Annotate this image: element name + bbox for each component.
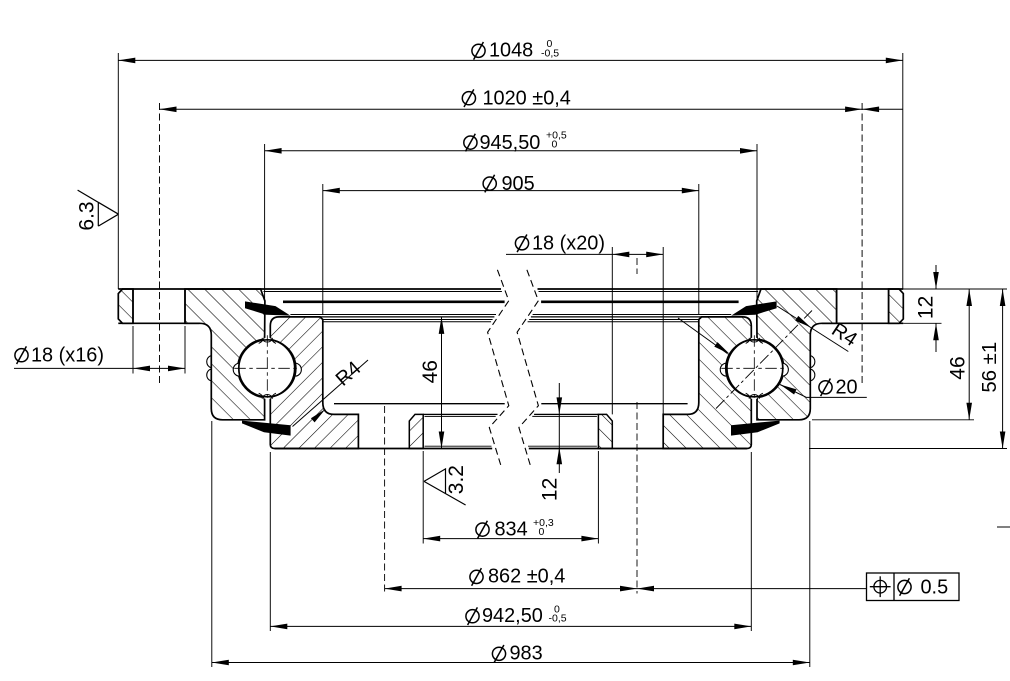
bottom bolt centerline right xyxy=(636,258,638,274)
svg-text:18 (x20): 18 (x20) xyxy=(532,233,605,255)
svg-text:46: 46 xyxy=(946,356,969,379)
svg-text:-0,5: -0,5 xyxy=(549,613,567,625)
svg-text:3.2: 3.2 xyxy=(445,465,468,494)
ball centerlines left xyxy=(234,367,300,369)
feature control frame position Ø0.5 xyxy=(867,573,960,601)
break line right xyxy=(517,270,538,465)
top silhouette line xyxy=(118,288,501,290)
svg-text:942,50: 942,50 xyxy=(482,605,543,627)
axis tick right edge xyxy=(997,526,1010,528)
filler plug, left outer ring xyxy=(207,356,212,382)
dimension 12 right (flange) xyxy=(903,288,1007,290)
leader Ø20 right ball xyxy=(780,385,806,398)
svg-text:862 ±0,4: 862 ±0,4 xyxy=(488,566,565,588)
contact angle diagonal, right ball xyxy=(716,311,812,409)
svg-text:56 ±1: 56 ±1 xyxy=(979,342,1001,393)
outer ring flange tip, right xyxy=(889,289,904,323)
inner ring top projected lines xyxy=(290,314,496,316)
bottom seal, right cut xyxy=(731,421,780,436)
filler plug, right outer ring xyxy=(810,356,815,382)
flange bolt centerline right xyxy=(861,103,863,383)
dimension Ø905 top xyxy=(322,184,324,314)
dimension Ø1020 top xyxy=(160,108,903,110)
break line left xyxy=(488,270,509,465)
outer ring flange tip, left xyxy=(118,289,133,323)
svg-text:12: 12 xyxy=(914,296,937,319)
dimension Ø945,50 top xyxy=(264,144,266,299)
race goblet flares left xyxy=(259,335,265,343)
svg-text:-0,5: -0,5 xyxy=(541,47,559,59)
svg-text:1020 ±0,4: 1020 ±0,4 xyxy=(483,88,571,110)
flange underside left xyxy=(118,322,199,324)
bottom seal, left cut xyxy=(242,421,291,436)
ball centerlines right xyxy=(721,367,787,369)
dimension 46 left (inner ring height) xyxy=(441,317,443,449)
leader R4 left xyxy=(293,360,369,427)
svg-text:0: 0 xyxy=(539,526,545,538)
seal edge thick line xyxy=(283,300,505,303)
svg-text:0: 0 xyxy=(552,139,558,151)
surface finish 3.2 bottom xyxy=(424,469,466,505)
svg-text:0.5: 0.5 xyxy=(921,577,949,599)
recess floor line xyxy=(423,413,497,415)
outer ring section, left cut xyxy=(185,289,265,420)
dimension Ø942,50 bottom xyxy=(269,452,271,631)
inner ring section, right cut xyxy=(663,317,751,449)
dimension 46 right xyxy=(812,419,974,421)
flange underside right xyxy=(822,322,903,324)
inner ring wall piece, right cut xyxy=(598,414,612,448)
svg-text:983: 983 xyxy=(510,643,543,665)
dimension 56 ±1 right xyxy=(809,448,1007,450)
ball right xyxy=(726,340,783,397)
svg-text:1048: 1048 xyxy=(489,40,533,62)
svg-text:834: 834 xyxy=(495,518,528,540)
dimension Ø862 bottom xyxy=(385,588,867,590)
race cusp pockets right xyxy=(720,363,726,376)
recess bottom chamfer line xyxy=(425,445,492,447)
leader R4 right xyxy=(777,306,848,352)
svg-text:6.3: 6.3 xyxy=(76,201,99,230)
flange bolt centerline left xyxy=(159,103,161,383)
bore chamfer projected lines xyxy=(323,319,493,321)
top seal, left cut xyxy=(245,301,290,315)
svg-text:18 (x16): 18 (x16) xyxy=(31,344,104,366)
top seal, right cut xyxy=(731,301,776,315)
surface finish 6.3 left xyxy=(78,190,119,226)
dimension Ø834 bottom xyxy=(422,451,424,544)
dimension Ø1048 top xyxy=(117,53,119,289)
flange bolt hole walls left xyxy=(132,289,134,323)
svg-text:46: 46 xyxy=(419,360,442,383)
bottom bolt centerline left xyxy=(384,406,386,594)
inner ring bottom face xyxy=(275,448,492,450)
race goblet flares right xyxy=(746,335,752,343)
ball left xyxy=(239,340,296,397)
svg-text:12: 12 xyxy=(538,478,561,501)
dimension Ø983 bottom xyxy=(211,421,213,667)
svg-text:905: 905 xyxy=(502,173,535,195)
outer ring section, right cut xyxy=(757,289,837,420)
dimension 12 bottom (recess depth) xyxy=(558,383,560,473)
race cusp pockets left xyxy=(233,363,239,376)
top edge second line xyxy=(264,291,502,293)
ledge line xyxy=(334,403,505,405)
flange bolt hole walls right xyxy=(888,289,890,323)
svg-text:20: 20 xyxy=(836,377,858,399)
contact angle leader arrow xyxy=(678,318,727,354)
dimension Ø18 (x16) left xyxy=(132,326,134,374)
inner ring wall piece between bolt hole and recess, left cut xyxy=(409,414,423,448)
dimension Ø18 (x20) xyxy=(611,247,613,414)
inner ring section, left cut xyxy=(270,317,358,449)
svg-text:945,50: 945,50 xyxy=(480,132,541,154)
